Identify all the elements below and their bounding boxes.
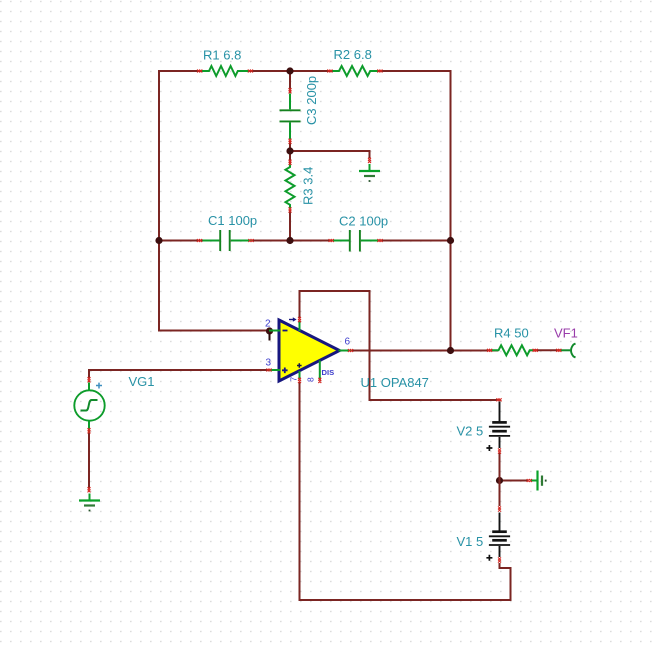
svg-text:R1 6.8: R1 6.8 <box>203 48 241 63</box>
resistor R1 <box>202 66 249 76</box>
svg-text:V1 5: V1 5 <box>457 534 484 549</box>
wire right vertical x=450.5 <box>450 70 452 351</box>
svg-text:C2 100p: C2 100p <box>339 214 388 229</box>
battery V2 <box>499 402 501 422</box>
VG1 waveform <box>81 400 98 411</box>
svg-text:C1 100p: C1 100p <box>208 213 257 228</box>
junction node C3/R3/ground <box>286 147 293 154</box>
ground near C3 node <box>369 164 371 171</box>
pin number 4 (rotated, top) <box>289 319 294 321</box>
capacitor C2 <box>333 240 349 242</box>
op-amp pin 6 lead <box>339 350 353 352</box>
wire V2 bottom to midpoint <box>499 453 501 481</box>
svg-text:R2 6.8: R2 6.8 <box>334 47 372 62</box>
svg-text:C3 200p: C3 200p <box>304 76 319 125</box>
svg-text:VF1: VF1 <box>554 326 578 341</box>
svg-text:2: 2 <box>265 319 271 330</box>
svg-text:VG1: VG1 <box>129 374 155 389</box>
junction node C2/right rail <box>447 237 454 244</box>
capacitor C3 (vertical) <box>289 94 291 110</box>
wire R4 to VF1 <box>534 349 558 351</box>
junction node left/C1 <box>155 237 162 244</box>
wire to op-amp pin 2 <box>158 330 269 332</box>
svg-text:R3 3.4: R3 3.4 <box>301 167 316 205</box>
battery V1 plus mark <box>486 555 492 561</box>
op-amp plus mark <box>282 368 288 374</box>
wire middle net (C1/C2 rail y=240.5) <box>159 240 219 242</box>
wire R3 bottom to middle net <box>289 210 291 241</box>
junction node V1/V2 midpoint <box>496 477 503 484</box>
wire V1/V2 midpoint to ground <box>500 480 529 482</box>
wire top net (R1/R2 rail y=71) <box>159 70 203 72</box>
resistor R4 <box>492 345 534 355</box>
op-amp +Vs plus mark <box>297 363 302 368</box>
svg-text:8: 8 <box>306 377 316 382</box>
junction node R1/R2/C3 <box>286 67 293 74</box>
svg-text:3: 3 <box>266 358 272 369</box>
VG1 plus mark <box>96 383 102 389</box>
wire op-amp output to R4 <box>352 350 498 352</box>
svg-text:6: 6 <box>345 337 351 348</box>
ground below VG1 <box>89 494 91 501</box>
svg-text:7: 7 <box>288 377 298 382</box>
ground at supply midpoint (rotated right) <box>531 480 537 482</box>
voltage probe VF1 <box>557 349 570 351</box>
wire C3 column x=290 <box>289 71 291 93</box>
wire C3/R3 node to ground <box>290 151 370 158</box>
capacitor C1 <box>203 240 220 242</box>
stub below pin 2 junction <box>269 333 271 341</box>
wire midpoint to V1 top <box>499 481 501 507</box>
wire VG1 bottom to ground <box>88 433 90 488</box>
source VG1 <box>74 390 104 420</box>
op-amp pin 2 lead <box>269 330 280 332</box>
op-amp DIS pin lead (pin 8) <box>319 361 321 381</box>
wire op-amp -Vs supply loop <box>300 291 498 400</box>
wire VG1 to op-amp pin 3 <box>89 369 269 371</box>
junction node op-amp pin 2 <box>266 327 273 334</box>
svg-text:DIS: DIS <box>322 368 335 377</box>
resistor R2 <box>333 66 378 76</box>
op-amp top pin lead (pin 4 -Vs) <box>299 321 301 331</box>
op-amp minus mark <box>283 330 288 332</box>
junction node C1/C2/R3 <box>286 237 293 244</box>
svg-text:R4 50: R4 50 <box>494 326 529 341</box>
op-amp bottom pin lead (pin 7 +Vs) <box>299 371 301 380</box>
VG1 top pin <box>88 383 90 391</box>
battery V2 plus mark <box>486 445 492 451</box>
svg-text:U1 OPA847: U1 OPA847 <box>361 375 429 390</box>
op-amp U1 triangle <box>279 320 340 381</box>
svg-text:V2 5: V2 5 <box>457 424 484 439</box>
battery V1 <box>499 513 501 531</box>
wire left vertical x=159 <box>158 70 160 331</box>
op-amp pin 3 lead <box>269 369 280 371</box>
junction node output/feedback <box>447 347 454 354</box>
resistor R3 (vertical) <box>286 165 295 209</box>
VG1 bottom pin <box>88 421 90 433</box>
wire op-amp +Vs bottom loop <box>300 382 511 600</box>
pin markers <box>197 70 202 73</box>
